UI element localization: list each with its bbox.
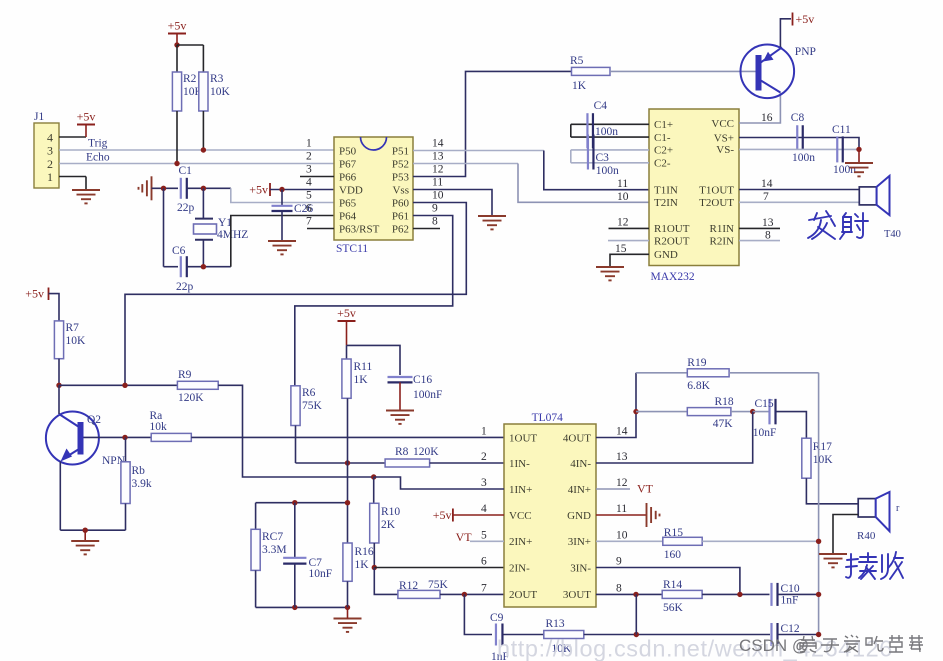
junction R10 top node — [371, 474, 376, 479]
svg-text:2IN-: 2IN- — [509, 562, 530, 574]
U1 pin names — [339, 145, 409, 235]
svg-text:1IN-: 1IN- — [509, 458, 530, 470]
U1 pin numbers — [306, 138, 444, 228]
connector J1 — [34, 111, 59, 188]
wire 4OUT up — [596, 373, 636, 438]
wire R8 to pin2 — [430, 462, 504, 464]
wire R2IN stub — [739, 240, 780, 242]
svg-text:2: 2 — [47, 157, 53, 171]
svg-text:R5: R5 — [570, 55, 584, 67]
junction gnd row node — [83, 528, 88, 533]
svg-text:+5v: +5v — [249, 183, 268, 197]
wire J1 pin4 stub — [59, 136, 86, 138]
junction R18 left node — [633, 409, 638, 414]
svg-text:2IN+: 2IN+ — [509, 536, 532, 548]
svg-text:VT: VT — [637, 482, 654, 496]
ground U2 ground — [596, 267, 624, 280]
svg-text:R1OUT: R1OUT — [654, 223, 690, 235]
svg-text:R2OUT: R2OUT — [654, 235, 690, 247]
svg-text:13: 13 — [762, 217, 774, 229]
resistor RC7 — [251, 529, 287, 570]
wire 3IN+ row — [596, 540, 663, 542]
wire RC7 top — [255, 503, 257, 530]
wire J1 pin1 stub — [59, 176, 86, 178]
svg-text:C1: C1 — [179, 165, 193, 177]
svg-text:11: 11 — [432, 177, 443, 189]
power +5v R2R3 — [168, 19, 187, 46]
capacitor C4 — [587, 113, 593, 148]
svg-text:C9: C9 — [490, 612, 504, 624]
svg-text:13: 13 — [616, 451, 628, 463]
wire C1+ lead — [571, 123, 649, 125]
svg-text:C16: C16 — [413, 374, 432, 386]
svg-text:P65: P65 — [339, 197, 357, 209]
ground XTAL ground — [139, 176, 152, 200]
resistor R15 — [663, 527, 702, 561]
power +5v J1 — [77, 110, 96, 138]
svg-text:12: 12 — [432, 164, 444, 176]
svg-text:C1-: C1- — [654, 132, 671, 144]
power +5v R7 — [25, 287, 48, 301]
wire rc top row — [256, 502, 348, 504]
svg-text:STC11: STC11 — [336, 243, 368, 255]
wire 4IN- route — [596, 412, 753, 463]
svg-text:+5v: +5v — [25, 287, 44, 301]
resistor R6 — [291, 386, 323, 426]
wire R11 bottom long — [347, 398, 349, 543]
wire R12 to pin7 — [440, 593, 504, 595]
resistor R8 — [385, 446, 439, 467]
wire C1C6 left vert — [163, 188, 165, 266]
transistor Q1 PNP — [741, 45, 795, 99]
capacitor C1 — [181, 178, 187, 199]
wire R18 left lead — [636, 411, 687, 413]
resistor R14 — [662, 579, 702, 614]
svg-text:P61: P61 — [392, 210, 409, 222]
wire C1 to Y1 node — [187, 187, 231, 189]
svg-text:75K: 75K — [302, 400, 323, 412]
capacitor C11 — [837, 136, 843, 162]
svg-text:8: 8 — [765, 230, 771, 242]
svg-text:C8: C8 — [791, 112, 805, 124]
wire pin8 to R13 vert — [635, 594, 637, 634]
svg-text:R2IN: R2IN — [710, 235, 735, 247]
svg-text:47K: 47K — [713, 418, 734, 430]
svg-text:Echo: Echo — [86, 152, 110, 164]
svg-text:4IN-: 4IN- — [570, 458, 591, 470]
svg-text:12: 12 — [617, 217, 629, 229]
svg-text:14: 14 — [616, 426, 628, 438]
resistor R7 — [54, 321, 86, 359]
svg-text:9: 9 — [432, 203, 438, 215]
svg-text:T2OUT: T2OUT — [699, 197, 734, 209]
svg-text:4MHZ: 4MHZ — [217, 229, 248, 241]
svg-text:R14: R14 — [663, 579, 682, 591]
power +5v U3 VCC — [433, 508, 453, 522]
svg-text:R13: R13 — [546, 618, 565, 630]
svg-text:2: 2 — [481, 451, 487, 463]
svg-text:100nF: 100nF — [413, 389, 442, 401]
svg-text:4IN+: 4IN+ — [568, 484, 591, 496]
wire C7 top lead — [294, 503, 296, 558]
svg-text:11: 11 — [617, 178, 628, 190]
svg-text:3.3M: 3.3M — [262, 544, 287, 556]
wire C16 gnd stem — [399, 382, 401, 410]
wire U3 pin11 stub — [596, 514, 647, 516]
resistor Rb — [121, 462, 152, 504]
wire T2OUT row — [739, 201, 859, 203]
svg-text:10nF: 10nF — [309, 568, 333, 580]
resistor R5 — [570, 55, 610, 92]
wire Q2 base row — [84, 436, 152, 438]
svg-text:1K: 1K — [572, 80, 587, 92]
svg-text:1: 1 — [47, 170, 53, 184]
wire P51 to T1IN — [413, 150, 544, 152]
capacitor C15 — [770, 399, 776, 425]
wire C2+ lead — [571, 149, 649, 151]
wire R3 bottom — [202, 111, 204, 150]
wire R5 to PNP base — [610, 70, 756, 72]
wire 3IN- route — [596, 568, 740, 595]
wire C6 right — [187, 266, 231, 268]
svg-text:VCC: VCC — [509, 510, 532, 522]
svg-text:P60: P60 — [392, 197, 410, 209]
junction C10 node — [816, 592, 821, 597]
svg-text:1: 1 — [306, 138, 312, 150]
svg-text:9: 9 — [616, 556, 622, 568]
svg-text:C12: C12 — [781, 623, 800, 635]
svg-text:R8: R8 — [395, 446, 409, 458]
svg-text:75K: 75K — [428, 579, 449, 591]
wire C15 to R17 — [776, 412, 806, 439]
wire 1IN+ step — [374, 477, 504, 489]
svg-text:10k: 10k — [150, 421, 168, 433]
label receive jie-shou — [846, 552, 903, 579]
junction VS node — [856, 147, 861, 152]
wire R18 right lead — [731, 411, 753, 413]
resistor R10 — [370, 503, 401, 543]
wire R2OUT stub — [608, 240, 649, 242]
wire T1OUT row — [739, 189, 859, 191]
junction R2R3 +5v — [174, 42, 179, 47]
label transmit fa-she — [808, 211, 868, 239]
svg-text:1K: 1K — [354, 374, 369, 386]
svg-text:VCC: VCC — [711, 118, 734, 130]
wire R19 right — [729, 372, 819, 374]
svg-text:P64: P64 — [339, 210, 357, 222]
svg-text:R40: R40 — [857, 530, 876, 542]
wire 1IN- row — [296, 462, 386, 464]
junction R14 node — [737, 592, 742, 597]
svg-text:T2IN: T2IN — [654, 197, 678, 209]
wire RC7 bottom — [255, 570, 257, 607]
junction C1 left — [161, 186, 166, 191]
svg-text:T40: T40 — [884, 229, 901, 240]
wire bias row — [59, 384, 177, 386]
ground C16 ground — [386, 411, 414, 424]
wire R17 to R40 — [806, 478, 858, 504]
ground C11 ground — [845, 163, 873, 176]
wire P52 to T2IN — [413, 163, 518, 165]
svg-text:2: 2 — [306, 151, 312, 163]
svg-text:R19: R19 — [687, 357, 706, 369]
junction R15 node — [816, 539, 821, 544]
wire R40 to ground — [833, 515, 858, 554]
wire gnd to C1 — [152, 187, 179, 189]
capacitor C12 — [772, 623, 778, 646]
wire C6 left — [164, 266, 179, 268]
power +5v R11 — [337, 306, 356, 345]
op-amp U3 TL074 — [504, 424, 596, 607]
svg-text:P63/RST: P63/RST — [339, 223, 380, 235]
junction R13 node — [634, 632, 639, 637]
wire C15 lead — [753, 411, 769, 413]
wire U1 pin7 stub — [307, 228, 334, 230]
svg-text:4: 4 — [481, 503, 487, 515]
U2 pin names — [654, 118, 734, 261]
svg-text:R11: R11 — [354, 361, 373, 373]
wire Q2 collector up — [58, 385, 60, 414]
wire VS gnd stem — [858, 149, 860, 162]
svg-text:100n: 100n — [792, 152, 815, 164]
svg-text:R7: R7 — [66, 322, 80, 334]
svg-text:8: 8 — [616, 582, 622, 594]
wire U2 GND route — [610, 254, 649, 266]
junction R7 node — [56, 383, 61, 388]
wire R12 left — [374, 568, 398, 595]
capacitor C9 — [496, 624, 503, 646]
svg-text:VS-: VS- — [716, 144, 734, 156]
svg-text:10K: 10K — [210, 86, 231, 98]
svg-text:CSDN @: CSDN @ — [739, 636, 809, 655]
svg-text:5: 5 — [306, 190, 312, 202]
wire R16 bottom — [347, 581, 349, 607]
capacitor C16 — [388, 377, 413, 382]
wire R3 top — [202, 45, 204, 72]
resistor R13 — [544, 618, 584, 655]
speaker R40 receive transducer — [858, 492, 889, 531]
wire PNP emitter to +5v — [780, 19, 791, 48]
svg-text:+5v: +5v — [337, 306, 356, 320]
wire C4 left vert — [570, 124, 572, 137]
capacitor C26 — [272, 206, 293, 211]
svg-text:10: 10 — [616, 529, 628, 541]
svg-text:R2: R2 — [183, 73, 197, 85]
svg-text:R6: R6 — [302, 387, 316, 399]
svg-text:T1OUT: T1OUT — [699, 184, 734, 196]
svg-text:1K: 1K — [355, 559, 370, 571]
svg-text:C11: C11 — [832, 124, 851, 136]
wire C12 right — [778, 634, 819, 636]
svg-text:100n: 100n — [833, 164, 856, 176]
wire Echo net J1 to U1 pin2 — [59, 163, 334, 165]
power +5v PNP — [793, 12, 815, 26]
svg-text:15: 15 — [615, 243, 627, 255]
svg-text:P62: P62 — [392, 223, 409, 235]
svg-text:7: 7 — [306, 216, 312, 228]
resistor R12 — [398, 579, 449, 598]
resistor R3 — [199, 72, 231, 111]
svg-text:22p: 22p — [176, 281, 194, 293]
svg-text:1nF: 1nF — [781, 595, 799, 607]
svg-text:VDD: VDD — [339, 184, 363, 196]
svg-text:R9: R9 — [178, 369, 192, 381]
svg-text:R15: R15 — [664, 527, 683, 539]
svg-text:2OUT: 2OUT — [509, 589, 537, 601]
svg-text:4: 4 — [306, 177, 312, 189]
wire U3 pin12 stub — [596, 488, 630, 490]
svg-text:R17: R17 — [813, 441, 832, 453]
svg-text:P66: P66 — [339, 171, 357, 183]
wire U3 pin5 stub — [470, 540, 504, 542]
wire gnd stem Q2 — [84, 530, 86, 541]
wire R10 bottom — [373, 543, 375, 568]
capacitor C3 — [588, 135, 594, 170]
resistor R16 — [343, 543, 374, 581]
svg-text:100n: 100n — [595, 126, 618, 138]
ground U3 ground — [647, 503, 660, 527]
wire R19 left — [636, 372, 687, 374]
svg-text:100n: 100n — [596, 165, 619, 177]
svg-text:4OUT: 4OUT — [563, 432, 591, 444]
wire +5v to R7 — [49, 294, 60, 321]
wire R10 top — [373, 477, 375, 503]
wire C9 to R13 — [503, 634, 544, 636]
wire R1OUT stub — [609, 227, 650, 229]
wire C1- lead — [571, 136, 649, 138]
junction R11 col node — [345, 500, 350, 505]
svg-text:R12: R12 — [399, 580, 418, 592]
wire P52 route down — [518, 164, 649, 203]
wire C26 bottom lead — [281, 211, 283, 241]
wire C7 bottom lead — [294, 564, 296, 608]
svg-text:C4: C4 — [594, 100, 608, 112]
svg-text:VS+: VS+ — [714, 132, 734, 144]
svg-text:12: 12 — [616, 477, 628, 489]
wire Q2 emitter down — [59, 462, 61, 531]
resistor Ra — [150, 410, 192, 441]
speaker T40 transmit transducer — [859, 176, 889, 215]
wire VS- row — [739, 148, 859, 150]
svg-text:R18: R18 — [715, 396, 734, 408]
svg-text:5: 5 — [481, 529, 487, 541]
U3 pin numbers — [481, 426, 628, 595]
junction bias row tap — [122, 383, 127, 388]
svg-text:3: 3 — [481, 477, 487, 489]
ground J1 ground — [72, 190, 100, 203]
svg-text:2K: 2K — [381, 519, 396, 531]
svg-text:Trig: Trig — [88, 138, 108, 150]
junction pin7 node — [462, 592, 467, 597]
capacitor C7 — [283, 558, 306, 564]
op-amp U1 STC11 — [334, 137, 413, 240]
svg-text:TL074: TL074 — [532, 412, 564, 424]
ground C26 ground — [268, 241, 296, 254]
wire Vss to ground — [413, 190, 492, 216]
svg-text:3OUT: 3OUT — [563, 589, 591, 601]
svg-text:Rb: Rb — [132, 465, 146, 477]
power +5v VDD — [249, 183, 270, 197]
wire XTAL1 to U1 pin5 — [231, 188, 334, 202]
junction R2-Echo — [174, 161, 179, 166]
crystal Y1 — [194, 188, 217, 266]
resistor R11 — [342, 359, 373, 398]
wire R7 bottom — [58, 359, 60, 386]
svg-text:P67: P67 — [339, 158, 357, 170]
svg-text:8: 8 — [432, 216, 438, 228]
junction C7 bottom — [292, 605, 297, 610]
junction base node — [122, 435, 127, 440]
svg-text:R16: R16 — [355, 546, 374, 558]
svg-text:R1IN: R1IN — [710, 223, 735, 235]
svg-text:VT: VT — [456, 530, 473, 544]
svg-text:14: 14 — [761, 178, 773, 190]
wire big right vert — [818, 373, 820, 634]
svg-text:120K: 120K — [178, 392, 204, 404]
svg-text:7: 7 — [763, 191, 769, 203]
wire U1 pin8 stub — [413, 228, 440, 230]
wire U1 pin3 stub — [300, 176, 334, 178]
svg-text:3.9k: 3.9k — [132, 478, 152, 490]
resistor R9 — [177, 369, 218, 404]
ground R40 ground — [819, 554, 847, 567]
svg-text:R10: R10 — [381, 506, 400, 518]
wire C3 left vert — [570, 150, 572, 163]
wire XTAL2 to U1 pin6 — [231, 216, 334, 267]
junction C26 node — [279, 187, 284, 192]
svg-text:+5v: +5v — [168, 19, 187, 33]
svg-text:1OUT: 1OUT — [509, 432, 537, 444]
resistor R17 — [802, 438, 833, 478]
junction C12 node — [816, 632, 821, 637]
wire 3OUT row — [596, 593, 662, 595]
junction R10 bottom node — [372, 565, 377, 570]
junction 3OUT node — [633, 592, 638, 597]
svg-text:3: 3 — [47, 144, 53, 158]
junction R11 bottom node — [345, 460, 350, 465]
resistor R18 — [687, 396, 734, 430]
svg-text:160: 160 — [664, 549, 682, 561]
svg-text:C2+: C2+ — [654, 145, 673, 157]
svg-text:1: 1 — [481, 426, 487, 438]
capacitor C10 — [772, 583, 778, 606]
wire R1IN stub — [739, 227, 780, 229]
wire P53 to R5 — [413, 71, 572, 176]
svg-text:56K: 56K — [663, 602, 684, 614]
wire Trig net J1 to U1 pin1 — [59, 149, 334, 151]
svg-text:120K: 120K — [413, 446, 439, 458]
svg-text:14: 14 — [432, 138, 444, 150]
svg-text:C6: C6 — [172, 245, 186, 257]
wire +5v to U3 pin4 — [453, 514, 504, 516]
wire Rb top — [125, 437, 127, 461]
junction Y1 top node — [201, 186, 206, 191]
junction Y1 bottom node — [201, 264, 206, 269]
svg-text:GND: GND — [567, 510, 591, 522]
wire R15 right — [702, 540, 818, 542]
transistor Q2 NPN — [46, 412, 99, 465]
capacitor C6 — [181, 256, 187, 277]
svg-text:4: 4 — [47, 131, 53, 145]
U3 pin names — [509, 432, 591, 601]
wire C10 right — [778, 593, 819, 595]
junction R3-Trig — [201, 147, 206, 152]
wire +5v node R11 — [347, 345, 401, 375]
svg-text:T1IN: T1IN — [654, 185, 678, 197]
ground RC ground — [334, 619, 362, 632]
wire R6 bottom — [295, 426, 297, 464]
svg-text:Vss: Vss — [392, 184, 409, 196]
